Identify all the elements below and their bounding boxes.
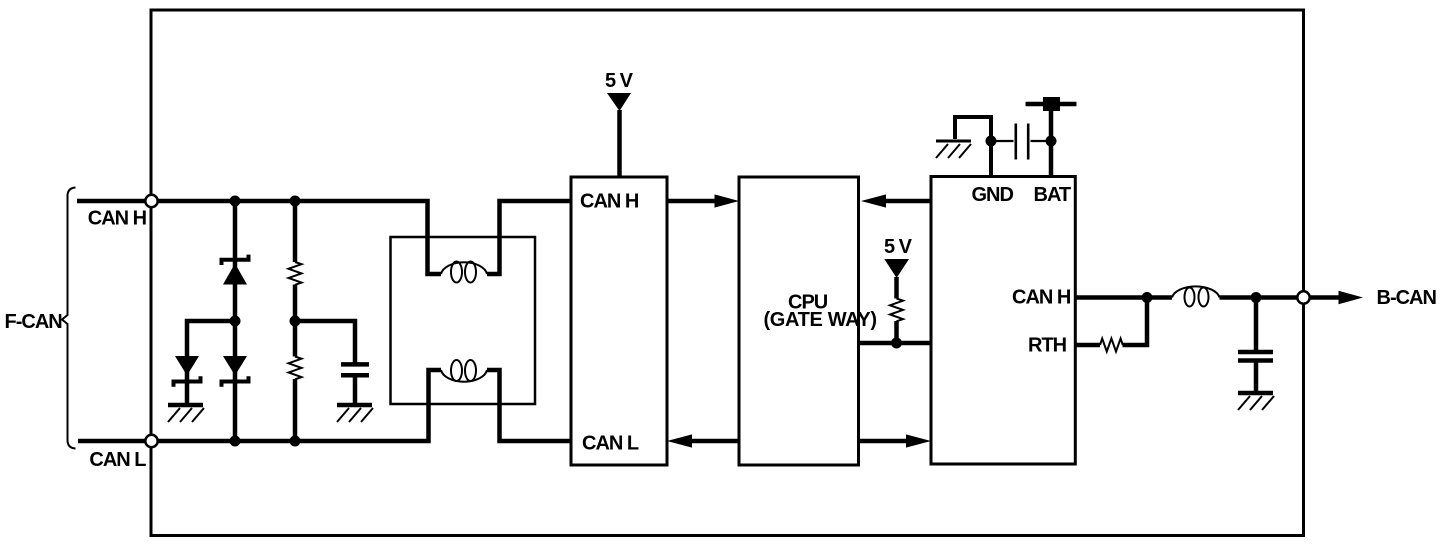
capacitor C1 <box>341 364 369 375</box>
svg-text:CAN H: CAN H <box>580 191 639 213</box>
wire U1 to CPU (CAN H) with arrow <box>667 194 739 207</box>
wire branch to left zener D3 <box>187 321 235 403</box>
junction dot C3 <box>1251 292 1262 303</box>
5V supply wire to U1 <box>617 110 622 177</box>
battery symbol <box>1026 97 1077 111</box>
junction dot R4 <box>891 338 902 349</box>
junction dot GND/cap <box>986 136 997 147</box>
wire CPU to U2 (middle) <box>859 341 932 346</box>
connector terminal CAN H <box>145 195 157 207</box>
wire CAN H left segment into choke <box>77 201 441 274</box>
common-mode choke box <box>391 237 536 404</box>
svg-text:CAN H: CAN H <box>1012 287 1071 309</box>
wire U2 RTH pin <box>1075 298 1147 346</box>
junction dots CAN H rail <box>230 196 241 207</box>
GND pin wire <box>955 117 991 177</box>
connector terminal B-CAN <box>1297 291 1309 303</box>
svg-text:CAN L: CAN L <box>89 449 146 471</box>
outer boundary box <box>151 10 1304 536</box>
choke top winding <box>441 262 487 283</box>
svg-text:CAN L: CAN L <box>582 433 639 455</box>
wire U2 CAN H pin <box>1075 295 1147 300</box>
BAT pin wire <box>1049 104 1054 177</box>
wire resistor branch vertical <box>293 201 298 441</box>
wire B-CAN output with arrow <box>1310 291 1363 304</box>
resistor R5 <box>1100 339 1123 352</box>
ground under C3 <box>1238 393 1274 410</box>
wire zener branch vertical <box>233 201 238 441</box>
connector terminal CAN L <box>145 435 157 447</box>
ground under D3 <box>168 405 204 422</box>
capacitor C3 <box>1238 352 1273 361</box>
junction dots mid <box>230 316 241 327</box>
wire R4 to junction <box>894 321 899 343</box>
svg-text:5 V: 5 V <box>884 236 913 258</box>
wire CAN H from choke to transceiver <box>487 201 571 274</box>
choke bottom winding <box>441 360 487 382</box>
gateway IC block U2 <box>931 177 1075 465</box>
F-CAN connector brace <box>62 188 76 449</box>
svg-text:CAN H: CAN H <box>88 208 147 230</box>
zener diode D1 (up) <box>222 255 249 285</box>
zener diode D2 (down) <box>222 356 249 387</box>
resistor R4 <box>890 299 903 322</box>
svg-text:B-CAN: B-CAN <box>1377 287 1437 309</box>
wire CAN L left segment into choke <box>78 370 441 441</box>
5V supply symbol (right) <box>884 259 909 278</box>
inductor L1 <box>1172 286 1220 306</box>
wire 5V to resistor R4 <box>894 277 899 299</box>
wire to capacitor C1 <box>295 321 355 403</box>
resistor R1 <box>289 262 302 285</box>
svg-text:BAT: BAT <box>1034 184 1071 206</box>
svg-text:5 V: 5 V <box>605 70 634 92</box>
wire to inductor L1 <box>1147 295 1172 300</box>
5V supply symbol <box>607 93 631 111</box>
svg-text:F-CAN: F-CAN <box>5 311 63 333</box>
wire CAN L from choke to transceiver <box>487 370 571 441</box>
capacitor C2 <box>991 124 1051 160</box>
zener diode D3 (down) <box>174 356 201 387</box>
ground under C1 <box>337 405 373 422</box>
svg-text:(GATE WAY): (GATE WAY) <box>764 309 877 331</box>
svg-text:RTH: RTH <box>1028 335 1067 357</box>
transceiver block U1 <box>571 177 667 465</box>
ground at GND pin <box>936 141 971 158</box>
resistor R2 <box>289 357 302 380</box>
wire CPU to U1 (CAN L) with arrow <box>667 434 739 447</box>
wire L1 to output <box>1220 295 1298 300</box>
wire CPU to U2 (bottom) with arrow <box>859 434 932 447</box>
wire to capacitor C3 <box>1254 298 1259 392</box>
junction dot CAN H / RTH <box>1142 292 1153 303</box>
junction dot BAT/cap <box>1046 136 1057 147</box>
CPU block <box>739 177 859 465</box>
junction dots CAN L rail <box>230 436 241 447</box>
wire U2 to CPU (top) with arrow <box>861 194 931 207</box>
svg-text:GND: GND <box>972 184 1014 206</box>
